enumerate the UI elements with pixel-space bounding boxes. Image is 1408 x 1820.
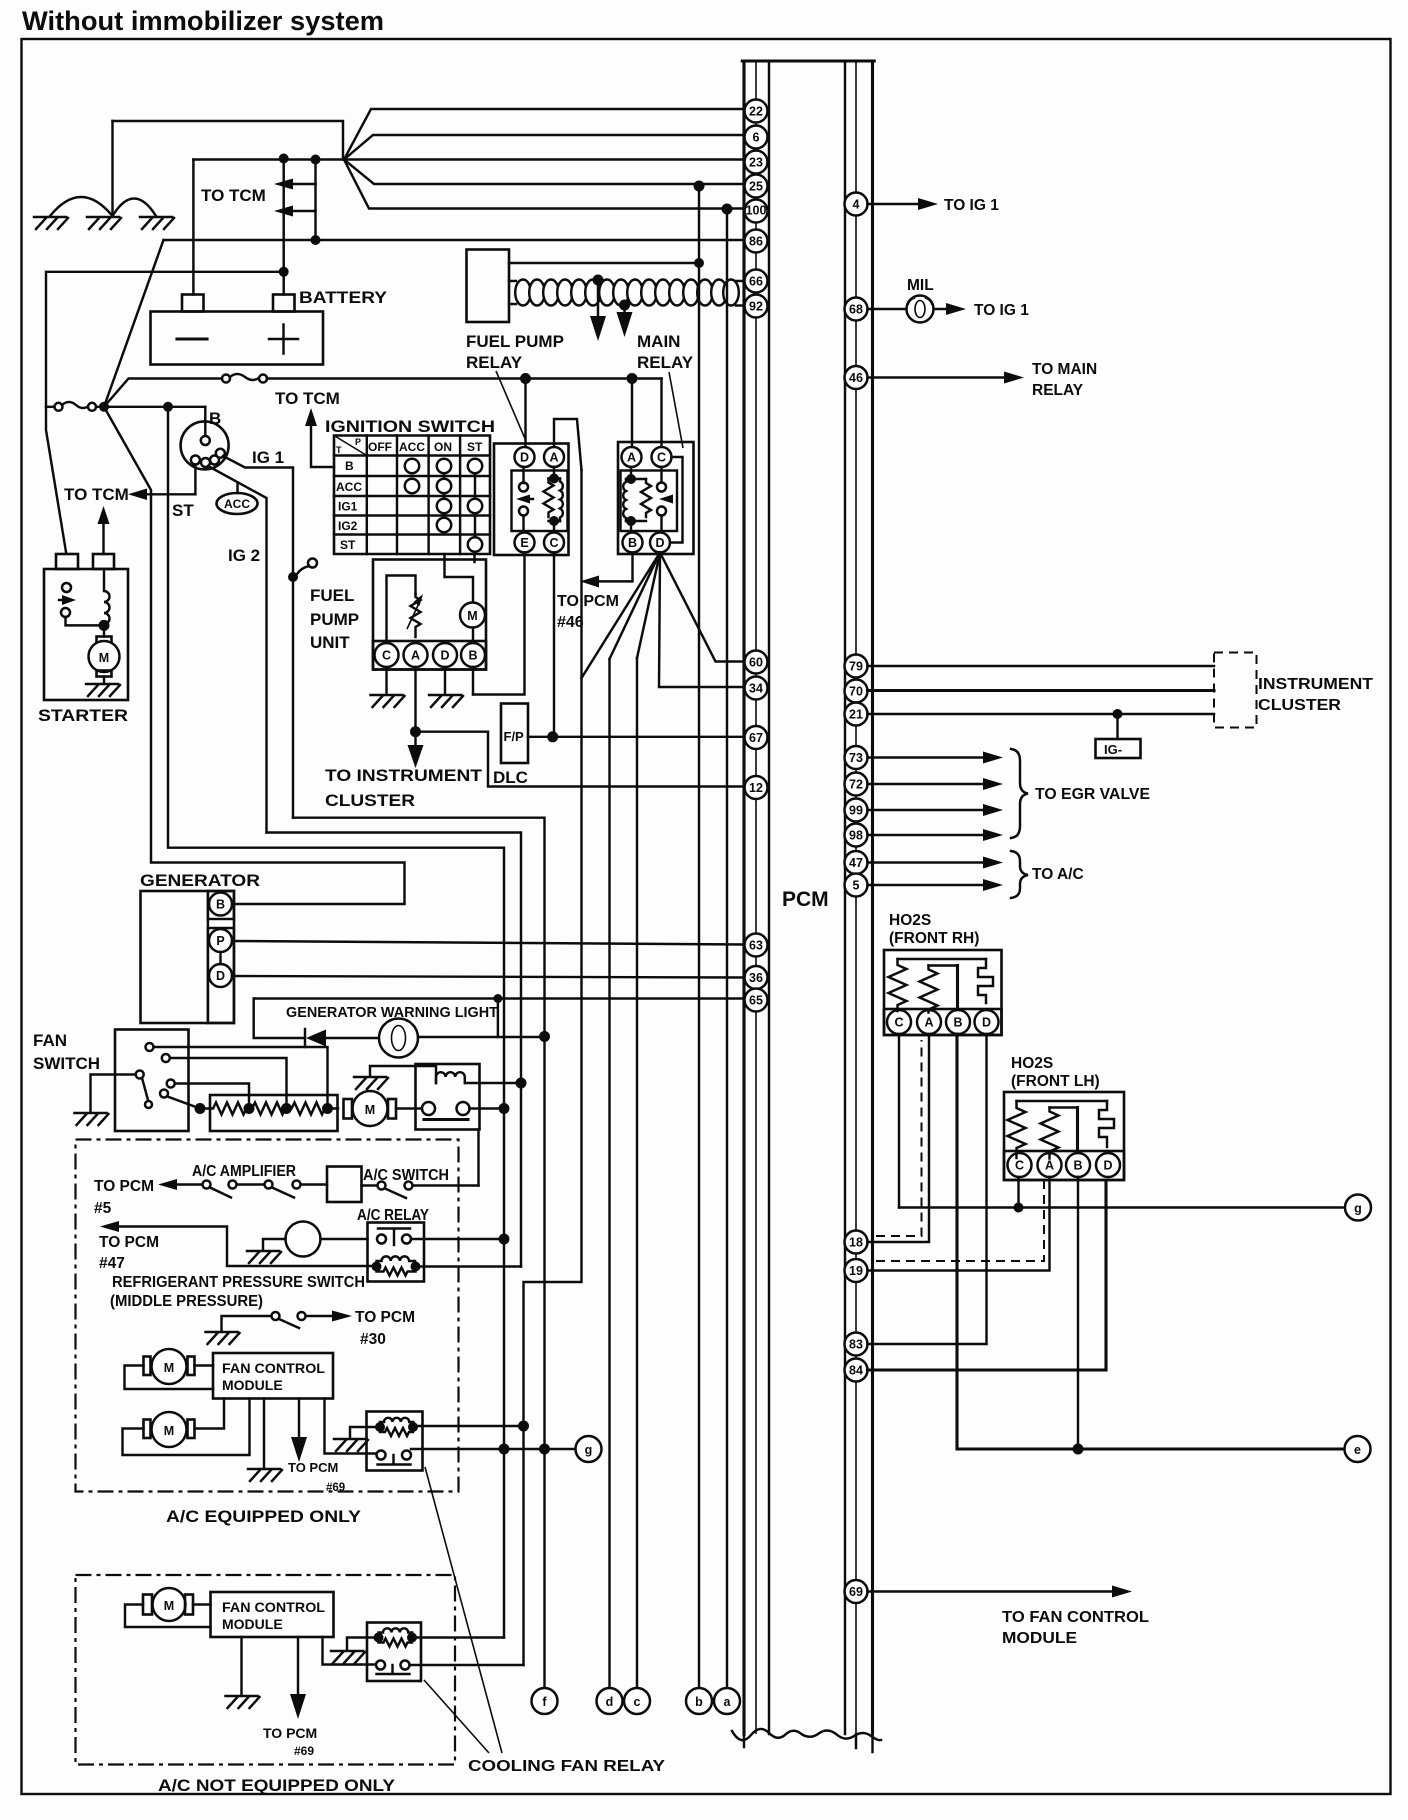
fuse TCM <box>222 375 230 383</box>
pin 66 <box>745 270 768 293</box>
wire terminal R to feed line <box>470 1107 505 1109</box>
svg-text:A/C AMPLIFIER: A/C AMPLIFIER <box>192 1163 296 1180</box>
node on feed line <box>499 1234 510 1245</box>
coil band loops <box>515 280 739 306</box>
amp blade 1 <box>210 1188 231 1198</box>
svg-text:M: M <box>99 651 109 665</box>
svg-text:ACC: ACC <box>336 480 362 494</box>
wire TCM drop <box>314 160 316 241</box>
wire coil to drop line <box>413 1425 524 1427</box>
svg-text:T: T <box>336 445 342 455</box>
svg-text:REFRIGERANT PRESSURE SWITCH: REFRIGERANT PRESSURE SWITCH <box>112 1274 365 1291</box>
HO2S LH box <box>1004 1092 1124 1180</box>
wire contact2 to drop end <box>410 1664 524 1666</box>
shield dashed LH <box>876 1180 1044 1261</box>
table grid <box>334 436 490 555</box>
wire fan to pin25 <box>344 160 744 185</box>
node on b vertical <box>694 258 704 268</box>
svg-text:#69: #69 <box>294 1744 314 1758</box>
svg-text:TO PCM: TO PCM <box>557 593 619 610</box>
switch blade <box>142 1078 148 1100</box>
resistor R-rh1 <box>889 959 907 1011</box>
relay2 T bar <box>377 1665 410 1674</box>
blank box left of coil <box>467 250 510 323</box>
wire main B to PCM46 arrow <box>590 553 633 582</box>
F/P box <box>501 704 528 764</box>
switch arm arrow <box>59 599 66 601</box>
wire pin98 EGR <box>868 834 989 836</box>
svg-text:A: A <box>549 451 558 465</box>
leader to cfr1 <box>425 1467 502 1753</box>
wire sw2 to node <box>66 617 105 625</box>
node d <box>597 1688 623 1714</box>
pin 6 <box>745 126 768 149</box>
amp blade 2 <box>272 1188 294 1198</box>
wire M3 loop <box>125 1605 211 1628</box>
inner pump branch <box>445 577 473 603</box>
svg-text:#47: #47 <box>99 1255 125 1272</box>
relay2 contact L <box>376 1661 385 1670</box>
arrow TO TCM lower <box>288 210 316 212</box>
svg-text:46: 46 <box>849 371 863 385</box>
svg-text:FUEL PUMP: FUEL PUMP <box>466 332 564 351</box>
svg-text:g: g <box>585 1443 593 1457</box>
battery box <box>151 312 324 365</box>
pin 65 <box>745 989 768 1012</box>
svg-text:D: D <box>982 1016 991 1030</box>
node B junction <box>99 402 109 412</box>
svg-text:ST: ST <box>467 440 483 454</box>
svg-text:GENERATOR: GENERATOR <box>140 871 260 890</box>
PCM top edge <box>742 59 874 62</box>
pin A <box>404 643 428 667</box>
HO2S RH box <box>884 950 1002 1035</box>
amplifier box <box>327 1167 362 1203</box>
arrow down from coil top <box>597 280 599 318</box>
battery plus symbol <box>269 325 298 354</box>
wire pin4 to IG1 <box>868 203 923 205</box>
svg-text:TO FAN CONTROL: TO FAN CONTROL <box>1002 1609 1149 1626</box>
A/C relay box <box>368 1223 425 1282</box>
fan control module box <box>213 1353 333 1399</box>
pin 73 <box>845 746 868 769</box>
wire c vertical <box>636 658 638 1688</box>
resistor chain <box>200 1103 338 1115</box>
pin D <box>975 1010 999 1034</box>
amp contact 3 <box>265 1181 273 1189</box>
svg-text:TO PCM: TO PCM <box>288 1460 338 1475</box>
wire A sender out <box>414 667 416 732</box>
relay T bar <box>378 1455 411 1465</box>
wire M2 loop <box>123 1399 250 1456</box>
svg-text:IG 2: IG 2 <box>228 546 260 565</box>
wire ground stem <box>111 121 113 216</box>
connector bar <box>424 1118 468 1121</box>
wire module ground <box>263 1399 265 1469</box>
wire pin65 line <box>254 997 744 999</box>
wire pin70 to instrument cluster <box>868 689 1215 692</box>
svg-text:CLUSTER: CLUSTER <box>325 791 415 810</box>
ac switch blade <box>385 1189 406 1199</box>
node on drop line <box>518 1421 529 1432</box>
svg-text:RELAY: RELAY <box>1032 382 1084 399</box>
svg-text:MODULE: MODULE <box>222 1616 283 1632</box>
wire FP A step to long vertical <box>554 419 582 470</box>
node b-line top on 25-line <box>694 181 705 192</box>
svg-text:A: A <box>411 649 420 663</box>
svg-text:IG-: IG- <box>1104 742 1122 757</box>
svg-text:4: 4 <box>853 198 860 212</box>
ac switch contact 2 <box>405 1182 413 1190</box>
svg-text:68: 68 <box>849 303 863 317</box>
node tcm junction on 23 line <box>311 155 321 165</box>
wire ST contact down <box>194 465 196 495</box>
svg-text:A: A <box>1045 1159 1054 1173</box>
ac switch contact 1 <box>378 1182 386 1190</box>
wire pin46 to main relay <box>868 376 1009 378</box>
circle B-ACC <box>405 459 419 473</box>
wire motor to connector <box>396 1107 422 1109</box>
svg-text:RELAY: RELAY <box>637 353 694 372</box>
node starter motor junction <box>99 620 110 631</box>
svg-text:CLUSTER: CLUSTER <box>1258 697 1341 714</box>
resistor R-lh2 <box>1041 1108 1059 1159</box>
svg-text:TO TCM: TO TCM <box>64 485 129 504</box>
wire RH B down to e <box>957 1034 1344 1449</box>
PCM bottom break (torn edge) <box>732 1729 881 1740</box>
arrow to IG1 <box>918 198 938 210</box>
svg-text:19: 19 <box>849 1264 863 1278</box>
node on f line <box>539 1444 550 1455</box>
contact IG2 <box>210 456 219 465</box>
wire fan to pin23 <box>193 158 744 160</box>
svg-text:TO MAIN: TO MAIN <box>1032 361 1097 378</box>
IG- box <box>1096 739 1141 758</box>
B terminal box <box>208 891 234 919</box>
crimp element D branch <box>1099 1101 1114 1147</box>
svg-text:C: C <box>1015 1159 1024 1173</box>
pin 19 <box>845 1259 868 1282</box>
pin 70 <box>845 680 868 703</box>
svg-text:IGNITION SWITCH: IGNITION SWITCH <box>325 417 495 436</box>
crimp element D branch <box>978 959 993 1003</box>
svg-text:UNIT: UNIT <box>310 633 350 652</box>
pin 34 <box>745 677 768 700</box>
wire pin5 A/C <box>868 884 989 886</box>
contact 1 <box>146 1043 154 1051</box>
svg-text:#30: #30 <box>360 1331 386 1348</box>
svg-text:A: A <box>627 451 636 465</box>
pin A <box>917 1010 941 1034</box>
leader to cfr2 <box>424 1680 489 1753</box>
blower motor M <box>344 1099 353 1119</box>
wire module2 to relay contact <box>323 1637 378 1665</box>
wire module to relay contact <box>325 1399 378 1454</box>
resistor R-rh2 <box>920 966 938 1013</box>
wire TO PCM 47 to coil <box>112 1227 377 1267</box>
svg-text:MAIN: MAIN <box>637 332 680 351</box>
svg-text:TO A/C: TO A/C <box>1032 866 1084 883</box>
node starter feed junction <box>279 267 289 277</box>
pin C <box>652 447 672 467</box>
svg-text:INSTRUMENT: INSTRUMENT <box>1258 676 1374 693</box>
wire branch down <box>497 999 499 1038</box>
svg-text:100: 100 <box>746 204 767 218</box>
svg-text:A/C EQUIPPED ONLY: A/C EQUIPPED ONLY <box>166 1507 362 1526</box>
svg-text:HO2S: HO2S <box>889 912 931 929</box>
pin D <box>209 964 232 987</box>
svg-text:TO EGR VALVE: TO EGR VALVE <box>1035 786 1150 803</box>
PCM left rail <box>742 61 745 1734</box>
svg-text:DLC: DLC <box>493 768 528 787</box>
svg-text:P: P <box>216 934 224 948</box>
svg-text:A: A <box>924 1016 933 1030</box>
main relay box <box>618 442 694 554</box>
svg-text:36: 36 <box>749 971 763 985</box>
wire c3 to resistor tap1 <box>175 1084 249 1104</box>
leader fuel pump relay <box>496 371 526 441</box>
svg-text:PCM: PCM <box>782 888 829 911</box>
relay2 ground <box>347 1638 379 1651</box>
arrow module2 to PCM69 <box>297 1637 299 1698</box>
pcm30 contact 1 <box>272 1312 280 1320</box>
svg-text:34: 34 <box>749 682 763 696</box>
pin B <box>623 533 643 553</box>
lamp bulb <box>379 1019 418 1058</box>
connector terminal L <box>422 1102 435 1115</box>
fuel pump unit box <box>373 560 486 670</box>
wire fan to pin22 <box>344 109 744 160</box>
wire ACC stem <box>236 483 238 494</box>
svg-text:FAN CONTROL: FAN CONTROL <box>222 1599 325 1615</box>
svg-text:D: D <box>440 649 449 663</box>
node on IG2 line <box>516 1078 527 1089</box>
ray to c-vertical <box>637 553 660 659</box>
connector terminal R <box>457 1102 470 1115</box>
svg-text:IG 1: IG 1 <box>252 448 284 467</box>
wire drop to main relay A <box>631 379 633 450</box>
starter terminal S <box>93 554 114 569</box>
svg-text:B: B <box>345 459 354 473</box>
pcm30 contact 2 <box>298 1312 306 1320</box>
wire pin18 to RH A <box>868 1034 930 1242</box>
svg-text:#46: #46 <box>557 614 584 631</box>
pcm30 blade <box>279 1319 299 1328</box>
svg-text:A/C NOT EQUIPPED ONLY: A/C NOT EQUIPPED ONLY <box>158 1776 396 1795</box>
pin D <box>650 533 670 553</box>
wire M1 to module <box>195 1364 214 1366</box>
PD terminal box <box>208 928 234 1023</box>
svg-text:B: B <box>628 536 637 550</box>
FP relay contact <box>519 483 528 492</box>
wire B to FP relay E <box>472 667 474 695</box>
svg-text:#5: #5 <box>94 1200 112 1217</box>
contact B <box>201 436 210 445</box>
wire ST column down to pump unit <box>473 554 475 562</box>
wire fan to pin6 <box>344 135 744 160</box>
svg-text:IG2: IG2 <box>338 519 358 533</box>
svg-text:c: c <box>634 1695 641 1709</box>
ground starter <box>86 684 120 696</box>
svg-text:70: 70 <box>849 685 863 699</box>
node LH B junction <box>1073 1444 1084 1455</box>
ray to d-vertical <box>610 553 661 660</box>
wire contact to feed line <box>411 1238 504 1240</box>
wire pin47 A/C <box>868 861 989 863</box>
wire fused TCM feed <box>104 379 222 407</box>
svg-text:C: C <box>549 536 558 550</box>
circle B-ST <box>468 459 482 473</box>
wire diagonal 86 to B junction <box>104 240 164 407</box>
svg-text:65: 65 <box>749 994 763 1008</box>
node sender junction <box>410 726 421 737</box>
node e <box>1345 1436 1371 1462</box>
ray to pin 34 <box>659 553 744 688</box>
wire pin83 to RH D <box>868 1034 987 1344</box>
svg-text:C: C <box>657 451 666 465</box>
pin 86 <box>745 230 768 253</box>
contact common <box>136 1071 144 1079</box>
ground fcm1 <box>248 1469 282 1481</box>
wire b vertical <box>698 186 700 1688</box>
pin 68 <box>845 298 868 321</box>
contact 4 <box>160 1090 168 1098</box>
svg-text:M: M <box>164 1599 174 1613</box>
node c <box>624 1688 650 1714</box>
wire gen B to battery junction <box>104 407 405 904</box>
pin D <box>515 447 535 467</box>
fan switch box <box>115 1030 189 1132</box>
svg-text:60: 60 <box>749 656 763 670</box>
wire batt feed elbow down (relay feed) <box>168 407 504 1638</box>
svg-text:66: 66 <box>749 275 763 289</box>
wire pin72 EGR <box>868 783 989 785</box>
arrow down from coil bottom <box>623 305 625 314</box>
node tap3 <box>322 1103 333 1114</box>
wire M2 to module <box>195 1399 225 1429</box>
ground fcm2 <box>226 1696 260 1708</box>
wire FP-A long drop <box>524 470 582 1665</box>
wire pin73 EGR <box>868 756 989 758</box>
node ig feed junction <box>163 402 173 412</box>
wire B to key <box>204 407 206 436</box>
svg-text:TO IG 1: TO IG 1 <box>944 197 999 214</box>
pin C <box>544 533 564 553</box>
pin D <box>433 643 457 667</box>
node coil bottom junction <box>619 300 630 311</box>
circle ST-ST <box>468 537 482 551</box>
battery minus symbol <box>177 337 207 340</box>
fan from main relay D: ray to g-vertical <box>582 553 661 679</box>
relay box <box>367 1623 421 1682</box>
svg-text:TO IG 1: TO IG 1 <box>974 302 1029 319</box>
wire FP C down to F/P line <box>553 553 555 737</box>
pin 100 <box>745 200 768 223</box>
wire ON column down to pump unit <box>443 554 445 577</box>
fan control module box 2 <box>211 1592 334 1637</box>
wire box to b-vertical <box>509 262 699 264</box>
wire 86 line <box>164 239 745 241</box>
motor M3 <box>143 1595 152 1615</box>
svg-text:IG1: IG1 <box>338 500 358 514</box>
amp contact 2 <box>229 1181 237 1189</box>
connector box <box>416 1064 480 1130</box>
svg-text:5: 5 <box>853 879 860 893</box>
wire gen P to pin63 <box>232 941 744 945</box>
pin 23 <box>745 151 768 174</box>
wire c4 to chain start <box>168 1097 201 1109</box>
main relay coil+resistor <box>630 467 632 532</box>
svg-text:92: 92 <box>749 300 763 314</box>
pin 4 <box>845 193 868 216</box>
contact 2 <box>162 1054 170 1062</box>
main relay contact <box>657 483 666 492</box>
svg-text:BATTERY: BATTERY <box>299 288 388 307</box>
wire a vertical <box>726 209 728 1688</box>
pin 79 <box>845 655 868 678</box>
pin A <box>1038 1153 1062 1177</box>
key circle <box>181 421 229 469</box>
starter box <box>44 569 128 700</box>
wire coil out to IG2 line <box>465 1082 521 1084</box>
node g left <box>576 1436 602 1462</box>
wire pin84 to LH D <box>868 1182 1107 1370</box>
brace A/C <box>1011 851 1028 898</box>
pressure switch circle <box>286 1222 321 1257</box>
wire coil2 to batt feed end <box>412 1636 504 1638</box>
svg-text:d: d <box>606 1695 614 1709</box>
pin C <box>375 643 399 667</box>
svg-text:TO TCM: TO TCM <box>201 186 266 205</box>
pin 12 <box>745 776 768 799</box>
svg-text:TO INSTRUMENT: TO INSTRUMENT <box>325 766 483 785</box>
wire ground D <box>444 667 446 694</box>
svg-text:RELAY: RELAY <box>466 353 523 372</box>
coil pair <box>375 1422 385 1432</box>
wire IG1 <box>223 456 293 818</box>
svg-text:MIL: MIL <box>907 277 934 294</box>
svg-text:PUMP: PUMP <box>310 610 359 629</box>
dash-dot border A/C equipped <box>76 1140 459 1492</box>
wire pin69 to fan control module <box>868 1590 1117 1592</box>
pin B <box>1066 1153 1090 1177</box>
wire sender to pin12 <box>416 732 745 787</box>
relay contact L <box>377 1235 386 1244</box>
svg-text:79: 79 <box>849 660 863 674</box>
pin 67 <box>745 726 768 749</box>
svg-text:g: g <box>1354 1202 1362 1216</box>
svg-text:B: B <box>953 1016 962 1030</box>
wire IG2 elbow down (A/C relay coil feed) <box>267 833 522 1267</box>
wire pin79 to instrument cluster <box>868 665 1215 667</box>
wire bulb to f-line <box>418 1036 545 1038</box>
pin 69 <box>845 1580 868 1603</box>
pin 72 <box>845 773 868 796</box>
FP relay coil+resistor <box>553 467 555 532</box>
pin 60 <box>745 651 768 674</box>
svg-text:63: 63 <box>749 939 763 953</box>
starter terminal B <box>56 554 78 569</box>
pin B <box>209 893 232 916</box>
svg-text:TO TCM: TO TCM <box>275 389 340 408</box>
arrow TO TCM up from S <box>102 516 104 554</box>
circle B-ON <box>437 459 451 473</box>
wire left leg down <box>254 999 303 1039</box>
arrow TO TCM upper <box>288 183 316 185</box>
pin 21 <box>845 703 868 726</box>
ground pump-D <box>429 695 463 707</box>
motor M starter <box>103 625 105 636</box>
